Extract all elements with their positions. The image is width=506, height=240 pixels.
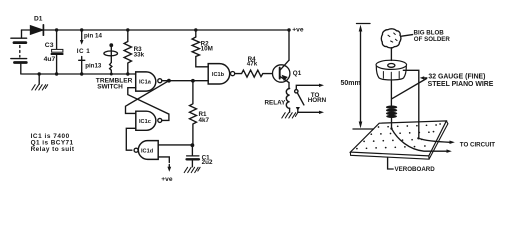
node: R2 top [194,28,197,31]
svg-text:RELAY: RELAY [265,100,287,107]
svg-text:32 GAUGE (FINE): 32 GAUGE (FINE) [428,73,485,80]
wire IC1d bottom input to +ve [158,157,169,167]
wire Q1 collector to relay [288,83,290,89]
svg-text:IC1a: IC1a [139,80,152,86]
svg-text:Relay to suit: Relay to suit [31,146,75,153]
node: R3 bottom [126,72,129,75]
+ve arrow down [167,167,171,172]
relay contact to horn [295,84,324,114]
op-amp gate IC1c (NAND) [136,111,162,130]
svg-text:pin 14: pin 14 [84,32,102,39]
wire IC1c lower input from IC1d output [126,128,136,150]
dimension line 50mm [353,24,374,130]
leader lines for 32 gauge label [392,78,427,99]
piano wire (blob to nut) [390,48,392,61]
wire cross-couple IC1c out to IC1a in [128,88,169,121]
veroboard holes [356,123,441,149]
diode D1 [31,25,44,35]
wire cross-couple IC1a out to IC1c in [126,81,169,114]
svg-text:2u2: 2u2 [202,159,213,166]
wire Q1 emitter to +ve rail [288,30,290,60]
node: C3 bottom [55,72,58,75]
node: trembler on rail [110,73,113,76]
battery B1 [11,30,27,74]
node: battery ground junction [38,72,41,75]
svg-text:33k: 33k [134,52,145,59]
wire bottom 0V rail [22,73,136,75]
node: R3 top [126,28,129,31]
svg-text:4u7: 4u7 [44,56,56,63]
veroboard label leader [388,157,394,169]
op-amp gate IC1b (NAND) [208,64,235,84]
wire IC1a output to IC1b input [162,80,208,82]
svg-text:IC 1: IC 1 [77,48,90,55]
svg-text:TO CIRCUIT: TO CIRCUIT [460,142,496,149]
node: pin14 on rail [80,28,83,31]
node: +ve junction [287,28,290,31]
veroboard [350,121,448,159]
svg-text:IC1b: IC1b [212,72,225,78]
node: pin13 on rail [80,72,83,75]
wire to circuit (upper) [418,138,450,142]
node: R1/C1/IC1d junction [191,143,195,147]
svg-text:VEROBOARD: VEROBOARD [395,166,436,173]
relay coil RLA [286,89,289,113]
leader to BIG BLOB label [402,35,413,37]
wire top rail [22,29,291,31]
op-amp gate IC1a (NAND) [136,72,162,91]
node: wire entry points [390,127,392,129]
op-amp gate IC1d (NAND mirrored) [134,141,158,160]
capacitor C1 [187,145,199,167]
piano wire (coil to board) [391,118,393,129]
svg-text:+ve: +ve [292,26,304,33]
wire coil at base [386,106,397,119]
svg-text:IC1d: IC1d [141,149,154,155]
ground (relay) [282,113,298,118]
resistor R2 [192,30,208,67]
svg-text:SWITCH: SWITCH [97,83,123,90]
svg-text:IC1c: IC1c [139,119,151,125]
wire to circuit (lower) [392,129,448,152]
wire IC1d top input [158,144,192,146]
trembler switch S1 [104,43,118,74]
svg-text:4k7: 4k7 [199,117,210,124]
ground (battery) [32,74,48,90]
resistor R4 [235,70,273,77]
capacitor C3 [51,30,64,74]
svg-text:STEEL PIANO WIRE: STEEL PIANO WIRE [428,81,494,88]
resistor R1 [190,81,197,145]
svg-text:OF SOLDER: OF SOLDER [414,36,451,43]
pin 14 pointer (IC1 supply) [80,30,84,45]
svg-text:Q1: Q1 [293,70,302,77]
pin 13 pointer [79,57,85,75]
big blob of solder [381,29,401,48]
svg-text:47k: 47k [247,61,258,68]
svg-text:C3: C3 [45,42,54,49]
svg-text:pin13: pin13 [85,62,102,69]
return wire from nut to board [403,70,419,138]
svg-text:+ve: +ve [161,176,173,183]
node: C3 top [55,28,58,31]
piano wire (nut to coil) [390,81,392,106]
svg-text:HORN: HORN [308,97,327,104]
svg-text:10M: 10M [201,46,213,53]
svg-text:50mm: 50mm [341,80,361,87]
svg-text:D1: D1 [34,16,43,23]
node: IC1a output junction [167,79,171,83]
nut / coil former on wire [376,60,407,80]
node: latch junction [191,79,195,83]
resistor R3 [124,30,131,74]
ground (C1) [184,167,200,172]
transistor Q1 [273,60,290,82]
